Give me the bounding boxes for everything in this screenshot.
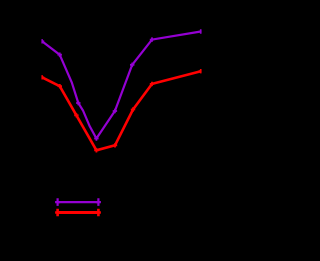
red marker p5	[113, 143, 117, 147]
purple series markers	[40, 29, 203, 140]
red marker p6	[131, 107, 135, 111]
legend red marker right	[96, 209, 101, 217]
red series markers	[40, 69, 203, 153]
purple marker p4	[94, 136, 98, 140]
red marker p4	[94, 148, 98, 152]
legend purple marker right	[96, 198, 101, 206]
legend red sample line	[58, 211, 99, 214]
red marker p1	[40, 75, 44, 79]
legend purple marker left	[55, 198, 60, 206]
purple marker p2	[58, 53, 62, 57]
purple marker p3	[76, 101, 80, 105]
plot background	[0, 0, 211, 256]
red marker p3	[74, 113, 78, 117]
purple marker p7	[150, 37, 154, 41]
purple marker p6	[130, 63, 134, 67]
purple marker p8	[199, 29, 203, 33]
legend purple sample line	[58, 201, 99, 203]
purple series line	[42, 32, 201, 139]
red series line	[42, 71, 201, 150]
purple marker p1	[40, 39, 44, 43]
legend red marker left	[55, 209, 60, 217]
red marker p7	[150, 82, 154, 86]
purple marker p5	[113, 109, 117, 113]
red marker p8	[199, 69, 203, 73]
red marker p2	[58, 84, 62, 88]
